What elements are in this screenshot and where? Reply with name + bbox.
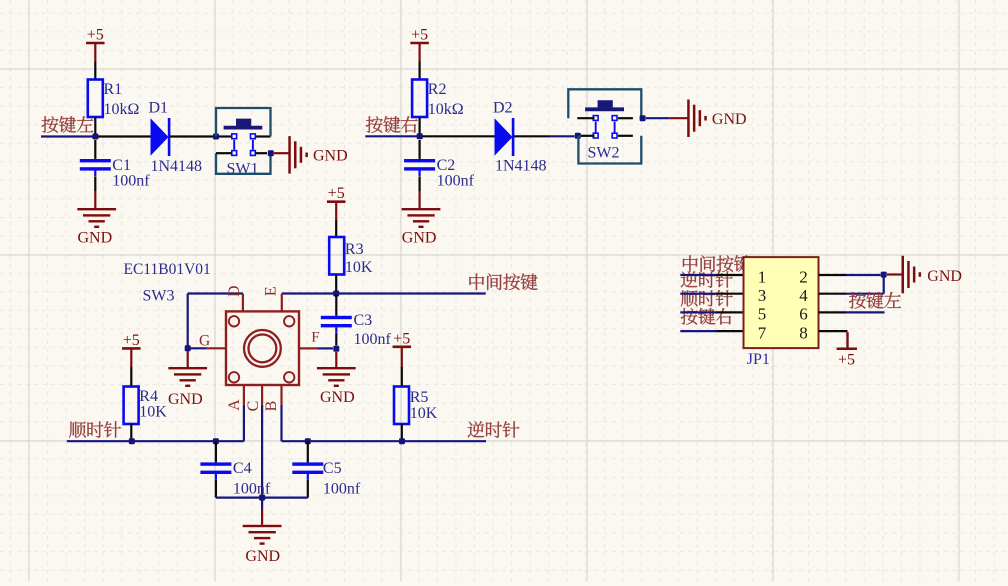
wire	[255, 135, 270, 137]
wire	[170, 135, 213, 137]
junction	[259, 495, 265, 501]
pin B	[280, 385, 282, 405]
svg-text:D1: D1	[149, 99, 169, 116]
wire	[261, 405, 263, 498]
net label 中间按键	[683, 255, 751, 272]
pin D	[242, 294, 244, 312]
wire	[280, 405, 282, 442]
ground	[317, 367, 356, 406]
svg-text:6: 6	[799, 305, 808, 324]
wire	[419, 191, 421, 208]
wire	[335, 295, 337, 316]
svg-text:+5: +5	[393, 330, 410, 347]
wire	[335, 275, 337, 294]
wire	[680, 311, 716, 313]
ground	[243, 525, 282, 565]
wire	[419, 62, 421, 80]
diode D2	[493, 99, 547, 174]
wire	[216, 152, 232, 154]
capacitor C2	[404, 157, 475, 190]
svg-text:E: E	[263, 286, 280, 296]
wire	[255, 152, 267, 154]
wire	[335, 220, 337, 237]
wire	[261, 498, 263, 509]
wire	[215, 441, 217, 462]
wire	[680, 274, 716, 276]
pin A	[243, 385, 245, 405]
net label 顺时针	[681, 290, 733, 307]
junction	[333, 291, 339, 297]
ground	[687, 100, 746, 138]
pin F	[299, 347, 317, 349]
svg-text:R5: R5	[410, 389, 429, 406]
wire	[618, 135, 633, 137]
svg-text:3: 3	[758, 286, 767, 305]
net label 逆时针	[468, 421, 520, 438]
svg-text:10kΩ: 10kΩ	[104, 101, 140, 118]
wire	[883, 273, 885, 294]
net label 按键右	[681, 308, 733, 325]
capacitor C4	[200, 460, 271, 498]
resistor R2	[412, 80, 464, 119]
svg-text:C5: C5	[323, 460, 342, 477]
resistor R4	[124, 387, 168, 425]
net label 按键右	[366, 116, 418, 133]
pin 3	[716, 293, 744, 295]
svg-text:+5: +5	[838, 352, 855, 369]
svg-text:GND: GND	[168, 391, 203, 408]
wire	[846, 293, 884, 295]
wire	[646, 117, 669, 119]
resistor R5	[394, 387, 438, 425]
svg-text:D: D	[226, 285, 243, 297]
svg-text:7: 7	[758, 323, 767, 342]
ground	[902, 256, 962, 293]
svg-text:+5: +5	[123, 332, 140, 349]
svg-text:A: A	[226, 399, 243, 411]
svg-text:C1: C1	[112, 157, 131, 174]
resistor R1	[88, 80, 140, 119]
wire	[98, 135, 151, 137]
wire	[846, 274, 881, 276]
svg-text:8: 8	[799, 323, 808, 342]
wire	[243, 405, 245, 442]
wire	[130, 367, 132, 387]
svg-text:1: 1	[758, 267, 767, 286]
pin 1	[716, 274, 744, 276]
wire	[887, 273, 902, 275]
svg-text:JP1: JP1	[747, 351, 770, 368]
ground	[288, 136, 347, 174]
svg-text:R1: R1	[104, 81, 123, 98]
svg-text:C3: C3	[354, 312, 373, 329]
svg-text:D2: D2	[493, 99, 513, 116]
svg-text:10K: 10K	[345, 259, 373, 276]
svg-text:1N4148: 1N4148	[151, 158, 203, 175]
svg-text:R4: R4	[139, 388, 158, 405]
svg-text:R2: R2	[428, 81, 447, 98]
junction	[640, 115, 646, 121]
wire	[94, 117, 96, 137]
svg-text:B: B	[263, 401, 280, 412]
wire	[215, 480, 217, 498]
wire	[317, 347, 333, 349]
junction	[129, 438, 135, 444]
wire	[187, 294, 189, 349]
wire	[550, 135, 575, 137]
junction	[417, 133, 423, 139]
pin 5	[716, 311, 744, 313]
pin 4	[819, 293, 847, 295]
switch SW2 body	[568, 89, 641, 163]
wire	[581, 135, 595, 137]
svg-text:EC11B01V01: EC11B01V01	[124, 261, 211, 278]
svg-text:GND: GND	[927, 268, 962, 285]
pin E	[281, 294, 283, 312]
svg-text:1N4148: 1N4148	[495, 158, 547, 175]
svg-text:C2: C2	[437, 157, 456, 174]
junction	[213, 134, 219, 140]
pin G	[207, 347, 226, 349]
junction	[185, 345, 191, 351]
wire	[216, 497, 308, 499]
svg-text:SW3: SW3	[143, 287, 175, 304]
pin 2	[819, 274, 847, 276]
wire	[365, 135, 417, 137]
svg-text:GND: GND	[245, 548, 280, 565]
power +5	[122, 332, 141, 367]
net label 中间按键	[469, 273, 537, 290]
power +5	[86, 27, 105, 62]
ground stub	[187, 351, 189, 367]
capacitor C3	[321, 312, 392, 348]
svg-text:2: 2	[799, 267, 808, 286]
wire	[307, 480, 309, 498]
svg-text:+5: +5	[87, 27, 104, 44]
diode D1	[149, 99, 203, 175]
wire	[282, 440, 487, 442]
switch SW1 body	[216, 108, 271, 177]
power +5	[327, 185, 346, 220]
svg-text:+5: +5	[411, 27, 428, 44]
wire	[219, 135, 232, 137]
capacitor C1	[80, 157, 151, 190]
wire	[577, 117, 594, 119]
wire	[94, 140, 96, 159]
wire	[188, 292, 243, 294]
wire	[130, 424, 132, 441]
svg-text:GND: GND	[78, 230, 113, 247]
wire	[423, 135, 495, 137]
net label 逆时针	[681, 271, 733, 288]
junction	[92, 134, 98, 140]
svg-text:C4: C4	[233, 460, 252, 477]
power +5 (down)	[837, 332, 857, 368]
wire	[282, 292, 486, 294]
wire	[846, 311, 885, 313]
wire	[307, 441, 309, 462]
wire	[335, 333, 337, 346]
resistor R3	[329, 237, 373, 276]
wire	[94, 176, 96, 191]
wire	[680, 330, 716, 332]
wire	[67, 440, 244, 442]
svg-text:GND: GND	[402, 230, 437, 247]
svg-text:4: 4	[799, 286, 808, 305]
ground	[168, 367, 207, 408]
junction	[575, 133, 581, 139]
svg-text:GND: GND	[320, 389, 355, 406]
junction	[333, 346, 339, 352]
net label 顺时针	[69, 421, 121, 438]
svg-text:5: 5	[758, 305, 767, 324]
ground	[402, 208, 441, 247]
pin 8	[819, 330, 848, 332]
svg-text:100nf: 100nf	[437, 173, 475, 190]
wire	[274, 152, 289, 154]
pin 7	[716, 330, 744, 332]
wire	[419, 117, 421, 136]
svg-text:10kΩ: 10kΩ	[428, 101, 464, 118]
capacitor C5	[292, 460, 361, 498]
wire	[419, 140, 421, 159]
wire	[94, 191, 96, 208]
power +5	[393, 330, 412, 367]
junction	[213, 438, 219, 444]
svg-text:100nf: 100nf	[233, 481, 271, 498]
wire	[41, 135, 93, 137]
power +5	[410, 27, 429, 62]
svg-text:G: G	[199, 332, 210, 349]
ground stub	[261, 509, 263, 525]
junction	[305, 438, 311, 444]
pin C	[261, 385, 263, 405]
net label 按键左	[42, 116, 94, 133]
svg-text:10K: 10K	[410, 405, 438, 422]
svg-text:100nf: 100nf	[112, 173, 150, 190]
svg-text:+5: +5	[328, 185, 345, 202]
ground	[77, 208, 116, 247]
svg-text:F: F	[311, 330, 319, 346]
wire	[188, 347, 207, 349]
wire	[669, 117, 687, 119]
svg-text:100nf: 100nf	[323, 481, 361, 498]
wire	[514, 135, 550, 137]
svg-text:SW1: SW1	[227, 160, 259, 177]
net label 按键左	[849, 292, 901, 309]
svg-text:10K: 10K	[139, 404, 167, 421]
svg-text:C: C	[245, 401, 262, 412]
ground stub	[335, 352, 337, 367]
pin 6	[819, 311, 847, 313]
svg-text:R3: R3	[345, 241, 364, 258]
svg-text:100nf: 100nf	[354, 331, 392, 348]
wire	[94, 62, 96, 80]
wire	[680, 293, 716, 295]
wire	[419, 176, 421, 191]
svg-text:SW2: SW2	[588, 145, 620, 162]
svg-text:GND: GND	[712, 111, 747, 128]
svg-text:GND: GND	[313, 148, 348, 165]
junction	[399, 438, 405, 444]
junction	[268, 150, 274, 156]
wire	[618, 117, 633, 119]
rotary encoder SW3	[226, 311, 299, 385]
connector JP1	[744, 257, 819, 368]
junction	[881, 272, 887, 278]
wire	[401, 424, 403, 441]
wire	[401, 367, 403, 387]
